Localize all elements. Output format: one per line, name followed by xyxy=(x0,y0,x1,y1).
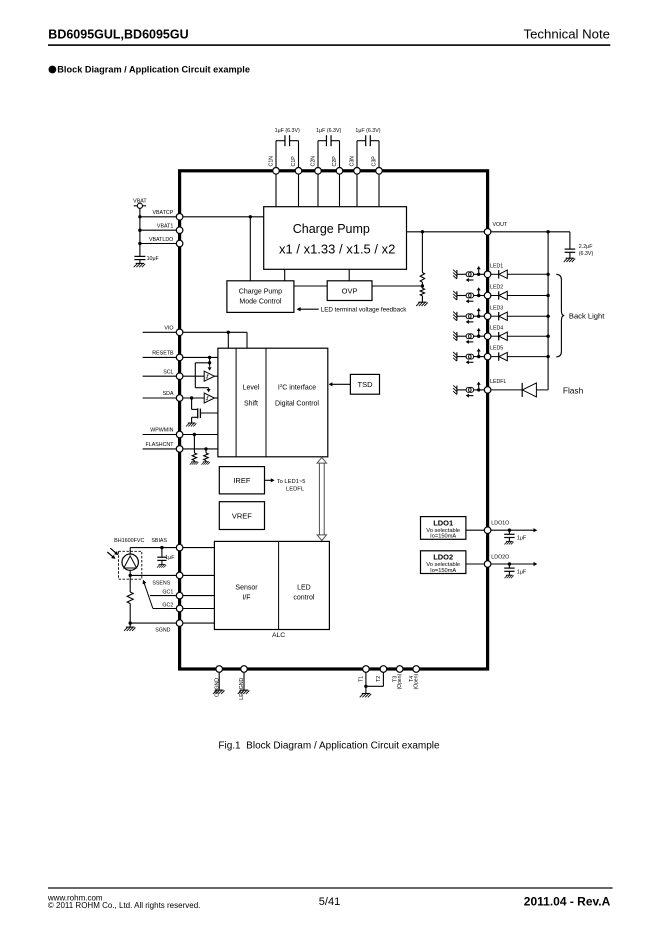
wire Charge Pump out to VOUT pin xyxy=(407,231,485,233)
wire branch to buffer1 supply xyxy=(209,357,211,366)
divider ALC xyxy=(278,541,280,629)
svg-text:VIO: VIO xyxy=(164,326,173,332)
svg-text:2011.04 - Rev.A: 2011.04 - Rev.A xyxy=(524,895,611,909)
wire ground to current source LED5 xyxy=(457,356,466,358)
wire LDO1O output with arrow xyxy=(491,529,534,531)
light arrows into sensor xyxy=(107,548,118,559)
wire R1 to R2 xyxy=(421,282,423,288)
svg-text:CPGND: CPGND xyxy=(214,678,220,697)
wire VIO internal xyxy=(183,331,247,333)
wire LEDGND to ground xyxy=(243,672,245,690)
block IREF xyxy=(219,467,264,494)
svg-text:C3P: C3P xyxy=(372,156,378,167)
svg-text:Shift: Shift xyxy=(244,401,258,408)
wire load resistor to SGND xyxy=(129,604,131,624)
ground (current sink LED5) xyxy=(453,352,457,361)
VBAT terminal xyxy=(134,203,146,208)
wire SSENS to ALC xyxy=(183,574,214,576)
wire stub VIO xyxy=(143,331,177,333)
svg-text:Level: Level xyxy=(243,384,260,391)
pin LDO1O xyxy=(484,527,491,534)
footer rule xyxy=(48,887,613,888)
wire CPGND to ground xyxy=(218,672,220,690)
svg-text:I2C interface: I2C interface xyxy=(278,383,316,391)
svg-text:© 2011 ROHM Co., Ltd. All righ: © 2011 ROHM Co., Ltd. All rights reserve… xyxy=(48,901,200,910)
ground (NMOS source) xyxy=(186,423,196,426)
svg-text:GC2: GC2 xyxy=(162,602,173,608)
wire SGND to ground xyxy=(129,623,131,627)
LED diode D5 xyxy=(491,352,548,360)
block OVP xyxy=(327,281,372,301)
wire stub FLASHCNT xyxy=(143,448,177,450)
svg-text:x1 / x1.33 / x1.5 / x2: x1 / x1.33 / x1.5 / x2 xyxy=(279,242,395,257)
svg-text:T1: T1 xyxy=(358,676,364,682)
wire SBIAS external xyxy=(130,547,176,549)
wire R2 to ground xyxy=(421,296,423,302)
wire VBAT rail down xyxy=(139,208,141,256)
current direction arrow up LED1 xyxy=(478,269,480,273)
svg-text:C2P: C2P xyxy=(332,156,338,167)
capacitor 10uF (VBAT) xyxy=(134,256,145,259)
wire sensor to SSENS xyxy=(129,570,131,575)
wire SCL to buffer xyxy=(183,375,204,377)
pin GC1 xyxy=(176,592,183,599)
junction LED2 internal xyxy=(477,294,480,297)
junction LDO2O cap xyxy=(508,562,511,565)
block VREF xyxy=(219,502,264,530)
current source LEDFL (double circle) xyxy=(466,387,474,392)
svg-text:VOUT: VOUT xyxy=(493,222,508,228)
svg-text:LED2: LED2 xyxy=(490,285,503,291)
svg-text:T2: T2 xyxy=(376,676,382,682)
svg-text:LDO2: LDO2 xyxy=(433,553,453,562)
arrow IREF to LEDs xyxy=(265,479,272,481)
wire ground to current source LED4 xyxy=(457,335,466,337)
divider Level Shift column xyxy=(235,348,237,457)
wire current source to pin LED2 xyxy=(474,295,485,297)
svg-text:OVP: OVP xyxy=(342,286,358,295)
svg-text:C1N: C1N xyxy=(269,156,275,167)
wire OVP to divider node xyxy=(372,285,422,287)
svg-text:RESETB: RESETB xyxy=(152,351,174,357)
svg-text:LED3: LED3 xyxy=(490,305,503,311)
LED diode D2 xyxy=(491,291,548,299)
svg-text:Charge Pump: Charge Pump xyxy=(293,222,370,236)
wire SGND external xyxy=(130,622,176,624)
svg-text:LED: LED xyxy=(297,584,311,591)
pin SSENS xyxy=(176,572,183,579)
junction RESETB branch xyxy=(208,356,211,359)
ground (LEDGND) xyxy=(238,690,250,694)
wire GC1 to ALC xyxy=(183,595,214,597)
svg-text:VREF: VREF xyxy=(232,512,252,521)
current direction arrow left LED4 xyxy=(469,341,474,343)
wire SSENS to load resistor xyxy=(129,575,131,592)
current direction arrow left LED1 xyxy=(469,279,474,281)
svg-text:10μF: 10μF xyxy=(147,256,160,262)
wire supply right to buffer2 xyxy=(195,387,208,389)
block Level Shift + I2C interface Digital Control xyxy=(218,348,328,457)
wire WPWMIN to resistor xyxy=(193,435,195,453)
pin T1 xyxy=(363,666,370,673)
svg-text:VBATCP: VBATCP xyxy=(152,210,173,216)
pin GC2 xyxy=(176,605,183,612)
pin LED4 xyxy=(484,333,491,340)
pin C1N xyxy=(273,168,280,175)
svg-text:1μF (6.3V): 1μF (6.3V) xyxy=(275,128,300,134)
wire LDO2 to pin xyxy=(466,563,484,565)
wire VOUT to 2.2uF xyxy=(569,232,571,249)
wire VBAT to VBATLDO xyxy=(140,243,177,245)
wire T1 to ground xyxy=(365,672,367,693)
svg-text:I/F: I/F xyxy=(242,595,250,602)
block TSD xyxy=(350,374,379,394)
svg-text:LEDFL: LEDFL xyxy=(490,379,507,385)
capacitor C3 1uF (flying) xyxy=(357,135,379,168)
pin LDO2O xyxy=(484,561,491,568)
ground (LDO1 cap) xyxy=(504,541,513,544)
wire supply down xyxy=(194,363,196,388)
wire VIO to logic block xyxy=(246,332,248,348)
pin VIO xyxy=(176,329,183,336)
pin VBATCP xyxy=(176,214,183,221)
svg-text:1μF (6.3V): 1μF (6.3V) xyxy=(316,128,341,134)
svg-text:1μF: 1μF xyxy=(517,569,527,575)
pin VBATLDO xyxy=(176,240,183,247)
current direction arrow left LED5 xyxy=(469,361,474,363)
wire LDO1 to pin xyxy=(466,529,484,531)
svg-text:SBIAS: SBIAS xyxy=(151,538,167,544)
wire current source to pin LEDFL xyxy=(474,389,485,391)
current source LED4 (double circle) xyxy=(466,334,474,339)
double arrow bus I2C to ALC xyxy=(317,457,326,540)
junction SBIAS cap xyxy=(160,546,163,549)
svg-text:2.2μF: 2.2μF xyxy=(579,244,593,250)
wire VBATCP to Charge Pump xyxy=(183,216,264,218)
ground (FLASHCNT pulldown) xyxy=(201,462,210,465)
junction buffer supply split xyxy=(208,361,211,364)
junction LED3 internal xyxy=(477,315,480,318)
junction VOUT/LED rail xyxy=(546,230,549,233)
wire GC2 external stub xyxy=(153,608,177,610)
wire ground to current source LED1 xyxy=(457,273,466,275)
wire GC1 external stub xyxy=(150,595,177,597)
svg-text:C1P: C1P xyxy=(291,156,297,167)
capacitor 1uF (SBIAS) xyxy=(157,557,166,560)
ground (current sink LED3) xyxy=(453,312,457,321)
svg-text:SDA: SDA xyxy=(163,391,174,397)
svg-text:WPWMIN: WPWMIN xyxy=(150,428,173,434)
junction LDO1O cap xyxy=(508,529,511,532)
svg-text:LED1: LED1 xyxy=(490,263,503,269)
junction sensor/SSENS xyxy=(129,574,132,577)
ground (SBIAS cap) xyxy=(157,565,166,568)
header rule xyxy=(48,44,610,46)
svg-text:(Open): (Open) xyxy=(397,674,403,690)
wire SBIAS cap down xyxy=(161,548,163,558)
wire FLASHCNT to resistor xyxy=(205,449,207,453)
wire pin C1N into Charge Pump xyxy=(275,171,277,207)
wire VOUT to divider R1 xyxy=(421,232,423,273)
pin SDA xyxy=(176,395,183,402)
current direction arrow up LED5 xyxy=(478,351,480,355)
svg-text:C3N: C3N xyxy=(350,156,356,167)
pin C3N xyxy=(354,168,361,175)
capacitor 1uF (LDO2O) xyxy=(504,568,514,571)
svg-text:LED4: LED4 xyxy=(490,325,503,331)
ground (divider) xyxy=(416,302,428,306)
pin VOUT xyxy=(484,229,491,236)
wire SBIAS to sensor xyxy=(129,548,131,554)
junction rail LED5 xyxy=(546,355,549,358)
wire LED anode rail xyxy=(547,232,549,390)
op block Charge Pump U-CP xyxy=(264,207,407,270)
svg-text:TSD: TSD xyxy=(358,380,374,389)
pin C2P xyxy=(336,168,343,175)
wire TSD to I2C xyxy=(332,383,351,385)
pin CPGND xyxy=(216,666,223,673)
junction VOUT/divider xyxy=(421,230,424,233)
wire VBAT to VBATCP xyxy=(140,216,177,218)
wire 2.2uF to ground xyxy=(569,252,571,258)
svg-text:Block Diagram / Application Ci: Block Diagram / Application Circuit exam… xyxy=(57,65,250,75)
block Charge Pump Mode Control xyxy=(227,281,294,313)
junction rail LED3 xyxy=(546,315,549,318)
resistor divider R1 xyxy=(420,273,424,283)
ground (sensor) xyxy=(124,627,136,631)
wire VBAT to VBAT1 xyxy=(140,229,177,231)
pin LED3 xyxy=(484,313,491,320)
wire SGND to ALC xyxy=(183,622,214,624)
ground (current sink LEDFL) xyxy=(453,385,457,394)
svg-text:Mode Control: Mode Control xyxy=(239,298,281,305)
wire current source to pin LED1 xyxy=(474,273,485,275)
wire pin C2P into Charge Pump xyxy=(339,171,341,207)
junction FLASHCNT pulldown xyxy=(204,447,207,450)
wire VIO branch to logic block xyxy=(227,332,229,348)
wire FLASHCNT internal xyxy=(183,448,218,450)
pin LEDFL xyxy=(484,387,491,394)
svg-text:LEDFL: LEDFL xyxy=(286,487,305,493)
svg-text:control: control xyxy=(293,595,314,602)
wire T2 down xyxy=(382,672,384,686)
junction LEDFL internal xyxy=(477,388,480,391)
wire pin C2N into Charge Pump xyxy=(317,171,319,207)
pin T3 xyxy=(396,666,403,673)
svg-text:LDO1: LDO1 xyxy=(433,519,453,528)
svg-text:FLASHCNT: FLASHCNT xyxy=(146,442,175,448)
wire pin C3N into Charge Pump xyxy=(356,171,358,207)
junction rail LED1 xyxy=(546,273,549,276)
junction VBAT/VBATCP xyxy=(138,215,141,218)
ground (current sink LED1) xyxy=(453,270,457,279)
svg-text:1μF: 1μF xyxy=(165,555,175,561)
wire SBIAS to ALC xyxy=(183,547,214,549)
junction LED1 internal xyxy=(477,273,480,276)
wire buffer SCL out xyxy=(215,375,218,377)
svg-text:IREF: IREF xyxy=(233,476,251,485)
pin LEDGND xyxy=(241,666,248,673)
ground (current sink LED2) xyxy=(453,291,457,300)
wire Mode Control to OVP xyxy=(294,285,327,287)
wire VOUT external xyxy=(491,231,570,233)
junction T1/T2 xyxy=(364,685,367,688)
svg-text:BH1600FVC: BH1600FVC xyxy=(114,538,144,544)
wire stub RESETB xyxy=(143,356,177,358)
capacitor 1uF (LDO1O) xyxy=(504,534,514,537)
svg-text:LED terminal voltage feedback: LED terminal voltage feedback xyxy=(321,306,408,313)
wire RESETB internal xyxy=(183,356,218,358)
block LDO1 xyxy=(421,517,466,540)
svg-text:Io=150mA: Io=150mA xyxy=(430,568,456,574)
junction VBAT/VBAT1 xyxy=(138,229,141,232)
junction LED4 internal xyxy=(477,335,480,338)
ground (T1/T2) xyxy=(360,694,372,698)
wire stub SDA xyxy=(143,397,177,399)
current source LED5 (double circle) xyxy=(466,354,474,359)
pin LED1 xyxy=(484,271,491,278)
current source LED1 (double circle) xyxy=(466,272,474,277)
wire pin C3P into Charge Pump xyxy=(378,171,380,207)
svg-text:To LED1~5: To LED1~5 xyxy=(277,479,306,485)
junction SGND xyxy=(129,621,132,624)
svg-text:ALC: ALC xyxy=(272,632,285,639)
svg-text:(6.3V): (6.3V) xyxy=(579,251,594,257)
capacitor C2 1uF (flying) xyxy=(318,135,340,168)
resistor FLASHCNT pulldown xyxy=(204,453,208,461)
svg-text:Io=150mA: Io=150mA xyxy=(430,534,456,540)
junction VBATCP branch xyxy=(249,215,252,218)
ground (10uF) xyxy=(134,263,146,267)
svg-text:Digital Control: Digital Control xyxy=(275,401,319,408)
ground (CPGND) xyxy=(213,690,225,694)
LED diode D3 xyxy=(491,312,548,320)
svg-text:Charge Pump: Charge Pump xyxy=(239,289,282,296)
svg-text:GC1: GC1 xyxy=(162,589,173,595)
svg-text:Back Light: Back Light xyxy=(569,312,605,321)
svg-text:SCL: SCL xyxy=(163,369,173,375)
svg-text:Sensor: Sensor xyxy=(235,584,258,591)
junction VIO branch xyxy=(227,331,230,334)
pin C2N xyxy=(315,168,322,175)
pin LED2 xyxy=(484,292,491,299)
wire current source to pin LED3 xyxy=(474,315,485,317)
transistor Q1 NMOS (SDA open drain) xyxy=(192,398,218,423)
pin C3P xyxy=(376,168,383,175)
svg-text:C2N: C2N xyxy=(311,156,317,167)
capacitor 2.2uF (VOUT) xyxy=(565,249,576,252)
current direction arrow up LED3 xyxy=(478,311,480,315)
current direction arrow up LED4 xyxy=(478,331,480,335)
resistor WPWMIN pulldown xyxy=(192,453,196,461)
current direction arrow up LED2 xyxy=(478,290,480,294)
wire VBATCP branch to Mode Control xyxy=(249,217,251,281)
block LDO2 xyxy=(421,551,466,574)
wire stub SCL xyxy=(143,375,177,377)
ambient light sensor BH1600FVC xyxy=(119,551,142,579)
current direction arrow up LEDFL xyxy=(478,384,480,388)
wire pin C1P into Charge Pump xyxy=(298,171,300,207)
wire Charge Pump to OVP xyxy=(348,269,350,281)
junction rail LED2 xyxy=(546,294,549,297)
wire into buffer2 arrow xyxy=(208,388,210,389)
wire T2 to T1 xyxy=(366,685,384,687)
pin T4 xyxy=(413,666,420,673)
ground (WPWMIN pulldown) xyxy=(190,462,199,465)
pin SCL xyxy=(176,373,183,380)
gain select arrow GC2 to SSENS xyxy=(143,580,153,609)
svg-text:LDO2O: LDO2O xyxy=(491,555,509,561)
junction WPWMIN pulldown xyxy=(193,433,196,436)
current direction arrow left LED2 xyxy=(469,300,474,302)
wire 10uF to ground xyxy=(139,260,141,264)
svg-text:VBATLDO: VBATLDO xyxy=(149,237,173,243)
brace Back Light group xyxy=(556,274,564,357)
wire buffer SDA out xyxy=(215,397,218,399)
current source LED2 (double circle) xyxy=(466,293,474,298)
pin FLASHCNT xyxy=(176,446,183,453)
svg-text:5/41: 5/41 xyxy=(319,896,340,908)
LED diode D1 xyxy=(491,270,548,278)
LED diode D4 xyxy=(491,332,548,340)
wire ground to current source LED2 xyxy=(457,295,466,297)
wire WPWMIN internal xyxy=(183,434,218,436)
ground (2.2uF) xyxy=(564,258,576,262)
block ALC (Sensor I/F + LED control) xyxy=(214,541,329,629)
svg-text:BD6095GUL,BD6095GU: BD6095GUL,BD6095GU xyxy=(48,27,188,41)
junction SDA/NMOS drain xyxy=(190,396,193,399)
wire GC2 to ALC xyxy=(183,608,214,610)
svg-text:SGND: SGND xyxy=(155,628,170,634)
pin VBAT1 xyxy=(176,227,183,234)
feedback arrow LED terminal voltage xyxy=(300,308,319,310)
divider I2C column xyxy=(265,348,267,457)
svg-text:(Open): (Open) xyxy=(414,674,420,690)
ground (LDO2 cap) xyxy=(504,575,513,578)
svg-text:Technical Note: Technical Note xyxy=(524,27,611,42)
svg-text:1μF: 1μF xyxy=(517,536,527,542)
section heading bullet xyxy=(49,66,57,74)
pin T2 xyxy=(380,666,387,673)
IC outline BD6095 block xyxy=(180,171,488,669)
svg-text:Flash: Flash xyxy=(563,385,584,395)
pin WPWMIN xyxy=(176,431,183,438)
wire Charge Pump to Mode Control xyxy=(284,269,286,281)
capacitor C1 1uF (flying) xyxy=(276,135,299,168)
junction VBAT/VBATLDO xyxy=(138,242,141,245)
flash LED diode DFL xyxy=(491,383,548,397)
svg-text:1μF (6.3V): 1μF (6.3V) xyxy=(355,128,380,134)
junction LED5 internal xyxy=(477,355,480,358)
resistor divider R2 xyxy=(420,288,424,296)
ground (current sink LED4) xyxy=(453,332,457,341)
current direction arrow left LED3 xyxy=(469,321,474,323)
wire current source to pin LED5 xyxy=(474,356,485,358)
resistor sensor load xyxy=(127,592,133,604)
current source LED3 (double circle) xyxy=(466,314,474,319)
current direction arrow left LEDFL xyxy=(469,395,474,397)
wire ground to current source LEDFL xyxy=(457,389,466,391)
pin LED5 xyxy=(484,353,491,360)
svg-text:LDO1O: LDO1O xyxy=(491,521,509,527)
junction divider tap xyxy=(421,284,424,287)
pin SBIAS xyxy=(176,544,183,551)
wire supply split left xyxy=(195,362,209,364)
wire ground to current source LED3 xyxy=(457,315,466,317)
svg-text:Fig.1 Block Diagram / Applica: Fig.1 Block Diagram / Application Circui… xyxy=(218,741,440,752)
pin C1P xyxy=(295,168,302,175)
schmitt buffer U-SCL xyxy=(204,371,214,381)
